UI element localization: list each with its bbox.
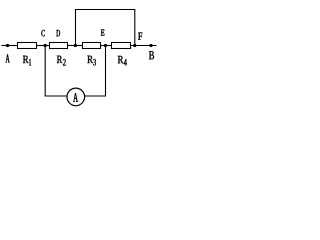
- node A terminal dot: [6, 44, 9, 47]
- node D junction dot: [74, 44, 77, 47]
- resistor R3 subscript 3: [93, 59, 95, 66]
- resistor R1: [18, 43, 37, 49]
- resistor R1 subscript 1: [29, 59, 31, 66]
- resistor R2 subscript 2: [63, 59, 66, 66]
- resistor R3: [83, 43, 101, 49]
- node C junction dot: [44, 44, 47, 47]
- resistor R2 value label: [57, 56, 62, 63]
- ammeter A1: [67, 88, 85, 106]
- node F junction dot: [133, 44, 136, 47]
- wire R2 to R3: [68, 45, 83, 47]
- resistor R1 value label: [23, 56, 29, 63]
- node A label: [6, 54, 10, 62]
- resistor R4 subscript 4: [124, 59, 127, 66]
- wire main left lead: [2, 45, 18, 47]
- wire bottom loop right: [84, 46, 105, 97]
- node C label: [41, 30, 44, 36]
- node F label: [138, 33, 142, 40]
- resistor R4 value label: [118, 56, 124, 63]
- wire R1 to R2: [37, 45, 50, 47]
- wire top bypass loop: [76, 10, 135, 46]
- wire R3 to R4: [101, 45, 112, 47]
- node B terminal dot: [149, 44, 152, 47]
- node E junction dot: [104, 44, 107, 47]
- resistor R3 value label: [87, 56, 93, 63]
- node D label: [56, 30, 60, 36]
- resistor R4: [112, 43, 131, 49]
- ammeter A1 label: [73, 93, 78, 102]
- wire bottom loop left: [45, 46, 67, 97]
- node B label: [149, 51, 154, 59]
- node E label: [101, 30, 104, 36]
- resistor R2: [50, 43, 68, 49]
- wire R4 to right end: [131, 45, 157, 47]
